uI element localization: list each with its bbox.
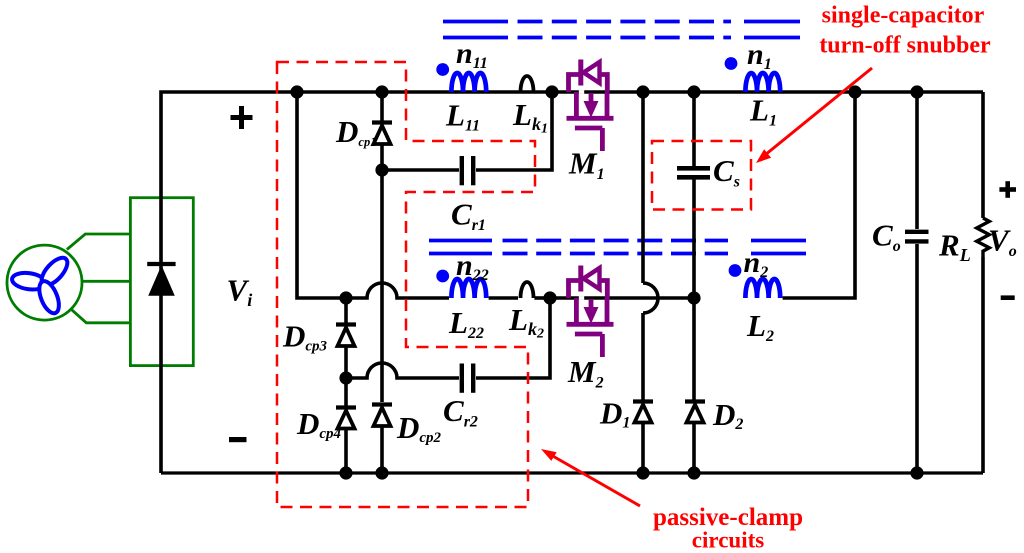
junction: bottom rail / D1 xyxy=(636,466,649,479)
wire: branch A vertical (node 297) xyxy=(297,92,346,298)
annotation arrow to clamp box xyxy=(541,449,640,506)
diode Dcp4 xyxy=(336,408,356,429)
winding n2 (L2) xyxy=(745,279,780,298)
wire: L2 return to top rail xyxy=(783,92,855,298)
winding n11 (L11) xyxy=(451,73,486,92)
wire: Dcp4 lead xyxy=(344,378,348,406)
diode D1 xyxy=(633,402,653,423)
wire: Cr1 to M1 drain node xyxy=(476,92,552,170)
capacitor Cr2 xyxy=(462,364,473,393)
diode D2 xyxy=(685,402,705,423)
winding n1 (L1) xyxy=(745,73,780,92)
transformer core 1 (coupling n11-n1) xyxy=(443,22,800,38)
wire: D2 to bottom rail xyxy=(692,423,696,474)
wire: right output branch upper xyxy=(981,92,985,218)
annotation arrow to Cs xyxy=(756,68,872,163)
junction: Lk2 / M2 node xyxy=(543,291,556,304)
transformer core 2 (coupling n22-n2) xyxy=(429,241,806,254)
mosfet M1 xyxy=(567,60,614,152)
wire: n22 to Lk2 xyxy=(489,296,518,300)
capacitor Cr1 xyxy=(462,156,473,185)
polarity dot n1 xyxy=(725,57,738,70)
wire: Dcp1 branch upper xyxy=(380,92,384,122)
wire: Dcp3 top lead xyxy=(344,298,348,324)
wire: D1 branch lower vertical xyxy=(641,313,645,400)
capacitor Co xyxy=(905,232,929,242)
wire: generator phase lead middle xyxy=(82,280,130,283)
junction: Dcp4 node xyxy=(339,371,352,384)
wire: D1 to bottom rail xyxy=(641,423,645,474)
wire: Dcp3 to Dcp4 node xyxy=(344,346,348,378)
wire: phase-2 hop over Dcp2 branch xyxy=(346,283,449,298)
junction: bottom rail / Dcp2 xyxy=(375,466,388,479)
wire: phase-2 through M2 to node B xyxy=(550,296,694,300)
wire: top rail xyxy=(297,90,983,94)
junction: phase-2 / Cs-D2 node B xyxy=(687,291,700,304)
polarity dot n22 xyxy=(436,270,449,283)
single-capacitor snubber dashed box (Cs) xyxy=(652,141,751,210)
wire: Cr2 hop over Dcp2 branch xyxy=(346,363,459,378)
wire: right output branch lower xyxy=(981,257,985,473)
wire: D1 branch hop over phase-2 wire xyxy=(643,283,658,313)
svg-text:turn-off snubber: turn-off snubber xyxy=(819,33,991,59)
wire: Dcp2 to bottom rail xyxy=(380,426,384,473)
wire: Cr2 to M2 source node xyxy=(476,298,550,378)
inductor Lk1 xyxy=(521,76,534,92)
wire: left input branch (Vi) xyxy=(161,92,297,473)
junction: phase-2 node A xyxy=(339,291,352,304)
diode Dcp1 xyxy=(372,123,392,145)
rectifier diode (filled) xyxy=(147,264,175,295)
capacitor Cs xyxy=(677,168,710,177)
wire: D2 branch vertical xyxy=(692,298,696,400)
minus sign output xyxy=(1001,295,1015,300)
wind turbine generator symbol xyxy=(7,245,82,320)
wire: generator phase lead bottom xyxy=(72,310,130,323)
junction: bottom rail / D2 xyxy=(687,466,700,479)
svg-text:circuits: circuits xyxy=(692,528,764,553)
minus sign input xyxy=(229,437,247,442)
diode Dcp2 xyxy=(372,405,392,427)
junction: top rail / Cs-D2 branch xyxy=(687,85,700,98)
resistor RL zigzag xyxy=(977,218,990,257)
mosfet M2 xyxy=(567,266,614,358)
junction: bottom rail / Co xyxy=(910,466,923,479)
junction: Cr1 left node xyxy=(375,163,388,176)
wire: output capacitor branch upper xyxy=(915,92,919,229)
diode Dcp3 xyxy=(336,325,356,347)
wire: Cs to phase-2 node xyxy=(692,180,696,299)
svg-text:single-capacitor: single-capacitor xyxy=(822,3,985,29)
rectifier block xyxy=(130,198,193,366)
plus sign output xyxy=(999,181,1016,198)
winding n22 (L22) xyxy=(451,279,486,298)
wire: Cs branch upper xyxy=(692,92,696,166)
polarity dot n2 xyxy=(729,264,742,277)
junction: Lk1 / M1 node xyxy=(545,85,558,98)
wire: bottom rail xyxy=(161,471,983,474)
junction: top rail / D1 branch xyxy=(636,85,649,98)
polarity dot n11 xyxy=(436,63,449,76)
wire: Lk2 to M2 node xyxy=(534,296,550,300)
inductor Lk2 xyxy=(521,282,534,298)
junction: top rail / Co xyxy=(910,85,923,98)
junction: top rail / Dcp1 xyxy=(375,85,388,98)
junction: top rail / L2 return xyxy=(848,85,861,98)
wire: D1 branch upper vertical xyxy=(641,92,645,283)
wire: generator phase lead top xyxy=(67,234,130,250)
wire: Dcp4 to bottom rail xyxy=(344,429,348,474)
junction: top rail / branch A xyxy=(290,85,303,98)
wire: Dcp1 to Cr1 node xyxy=(380,144,384,170)
wire: output capacitor branch lower xyxy=(915,244,919,473)
wire: Cr1 link with capacitor Cr1 xyxy=(382,168,459,172)
wire: Dcp2 branch vertical xyxy=(380,170,384,402)
junction: bottom rail / Dcp4 xyxy=(339,466,352,479)
passive-clamp dashed outline xyxy=(277,62,535,507)
plus sign input xyxy=(231,106,253,129)
